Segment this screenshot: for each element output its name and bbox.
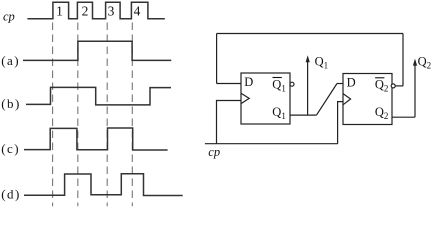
svg-text:1: 1: [56, 3, 63, 18]
svg-text:(b): (b): [1, 96, 21, 111]
svg-text:Q2: Q2: [375, 105, 389, 121]
svg-text:3: 3: [108, 3, 115, 18]
Q1 arrowhead: [306, 55, 310, 62]
svg-text:Q1: Q1: [315, 54, 329, 70]
D flip-flop U1 box: [241, 73, 290, 124]
wire: cp riser to U1 clock: [217, 101, 242, 144]
waveform (b): [26, 87, 171, 105]
wire: Q2 arrow riser: [414, 65, 416, 117]
U1 Q1-bar output bubble: [290, 82, 294, 86]
wire: feedback right vertical down to Q2-bar: [402, 34, 404, 86]
dashed timeline t3: [106, 23, 108, 207]
wire: Q1 arrow riser: [307, 62, 309, 115]
wire: Q2 output horizontal: [392, 116, 415, 118]
svg-text:Q1: Q1: [272, 105, 286, 121]
U1 clock triangle: [241, 93, 249, 103]
svg-text:Q2: Q2: [375, 78, 389, 94]
dashed timeline t2: [77, 23, 79, 207]
waveform (c): [24, 128, 168, 150]
waveform (d): [24, 174, 183, 196]
wire: D input stub of U2: [337, 83, 343, 85]
svg-text:Q1: Q1: [272, 78, 286, 94]
dashed timeline t1: [52, 23, 54, 207]
dashed timeline t4: [131, 23, 133, 207]
svg-text:(d): (d): [1, 187, 21, 202]
wire: D input stub of U1: [217, 83, 241, 85]
waveform (a): [23, 41, 171, 60]
wire: cp riser to U2 clock: [338, 102, 343, 144]
wire: Q1 output horizontal: [290, 114, 317, 116]
U2 Q2-bar overline: [375, 77, 384, 79]
svg-text:D: D: [244, 75, 253, 89]
svg-text:Q2: Q2: [418, 54, 432, 70]
svg-text:cp: cp: [3, 10, 15, 24]
D flip-flop U2 box: [343, 74, 392, 125]
U2 clock triangle: [343, 94, 351, 105]
wire: Q1 to D2 diagonal: [317, 84, 338, 116]
cp clock waveform: [27, 2, 164, 18]
svg-text:cp: cp: [208, 145, 220, 159]
svg-text:4: 4: [134, 3, 141, 18]
U2 Q2-bar output bubble: [391, 84, 395, 88]
wire: feedback top horizontal: [217, 33, 403, 35]
U1 Q1-bar overline: [273, 77, 282, 79]
Q2 arrowhead: [413, 59, 417, 66]
wire: cp bus horizontal: [205, 143, 338, 145]
wire: Q2-bar bubble to feedback riser: [395, 85, 403, 87]
svg-text:(c): (c): [1, 141, 20, 156]
svg-text:(a): (a): [1, 53, 20, 68]
svg-text:D: D: [347, 75, 356, 89]
svg-text:2: 2: [82, 3, 89, 18]
wire: feedback from Q2-bar to D1, left vertical: [216, 34, 218, 84]
